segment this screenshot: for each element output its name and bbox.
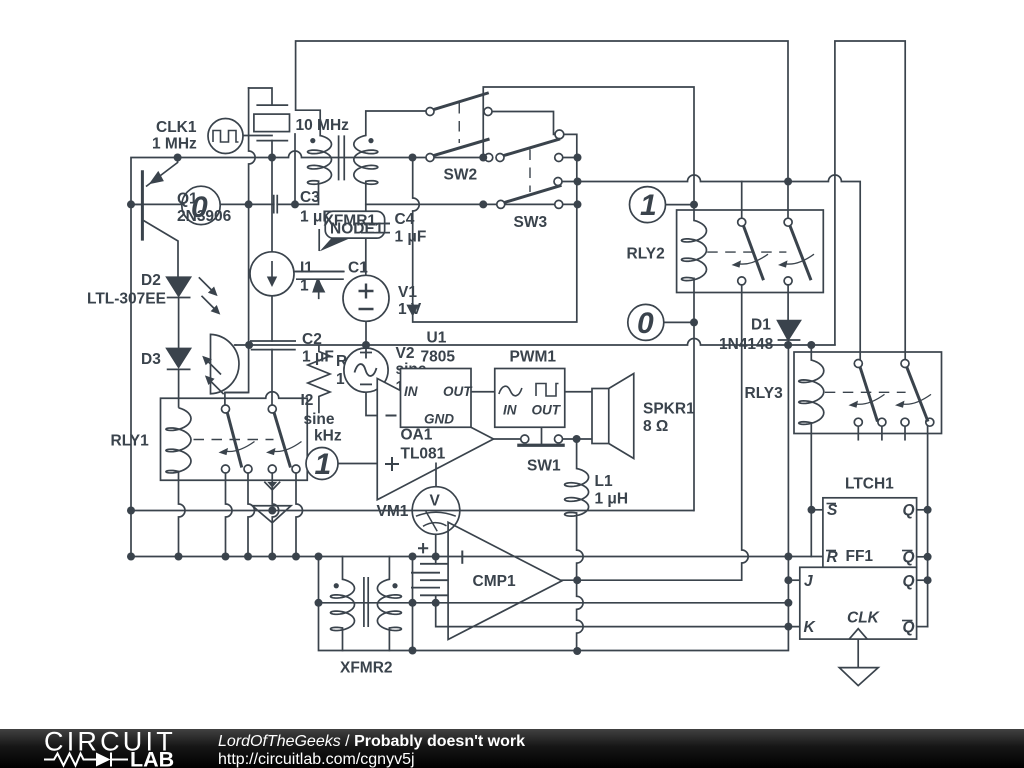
svg-text:LordOfTheGeeks / Probably does: LordOfTheGeeks / Probably doesn't work bbox=[218, 733, 525, 750]
current source I1 bbox=[250, 252, 294, 296]
junction at (577.5,157.5) bbox=[574, 154, 582, 162]
svg-text:LTCH1: LTCH1 bbox=[845, 476, 894, 493]
svg-text:OA1: OA1 bbox=[401, 427, 433, 444]
svg-text:K: K bbox=[804, 619, 817, 636]
capacitor C4 bbox=[361, 224, 390, 233]
FF1 clock triangle bbox=[849, 629, 867, 639]
pin Rbar bbox=[826, 549, 839, 566]
svg-text:1 A: 1 A bbox=[300, 278, 324, 295]
junction at (272.25,556.5) bbox=[268, 553, 276, 561]
wire Q1 base bbox=[131, 203, 141, 205]
junction at (927.6,509.8) bbox=[924, 506, 932, 514]
svg-text:http://circuitlab.com/cgnyv5j: http://circuitlab.com/cgnyv5j bbox=[218, 751, 415, 768]
svg-text:D1: D1 bbox=[751, 317, 771, 334]
wire LTCH1 S stub bbox=[812, 509, 823, 511]
junction at (435.7,602.8) bbox=[432, 599, 440, 607]
wire crystal top lead bbox=[249, 88, 272, 105]
wire LTCH1 Qbar stub bbox=[917, 556, 928, 558]
junction at (318.5,602.8) bbox=[315, 599, 323, 607]
wire RLY3 coil bottom to LTCH1 bbox=[810, 423, 812, 557]
wire C3 right to XFMR1 left winding bbox=[277, 181, 318, 204]
svg-text:sine: sine bbox=[304, 411, 335, 428]
node flag 0 at RLY2 bbox=[628, 304, 664, 340]
junction at (927.6,580.2) bbox=[924, 576, 932, 584]
wire I1 to C1 bbox=[294, 271, 344, 273]
junction at (576.6,439) bbox=[573, 435, 581, 443]
wire bus segment SW2 pole2 throw bbox=[434, 157, 485, 159]
wire FF1 right vertical bbox=[927, 426, 929, 626]
junction at (177.6,157.5) bbox=[174, 154, 182, 162]
junction at (131,510.5) bbox=[127, 507, 135, 515]
wire bus2 y556 to FF1 R bbox=[131, 556, 823, 558]
svg-text:C2: C2 bbox=[302, 331, 322, 348]
relay RLY2 bbox=[677, 210, 824, 293]
wire FF1 Q stub bbox=[917, 579, 928, 581]
wire PWM1 bottom to SW1 bar bbox=[541, 427, 543, 444]
svg-text:1 MHz: 1 MHz bbox=[152, 136, 197, 153]
capacitor C1 bbox=[295, 272, 344, 280]
svg-text:SW3: SW3 bbox=[514, 214, 548, 231]
junction at (318.5,556.5) bbox=[315, 553, 323, 561]
svg-text:1 μH: 1 μH bbox=[595, 491, 629, 508]
junction at (412.5,650.5) bbox=[409, 647, 417, 655]
resistor R1 label bbox=[336, 353, 370, 388]
svg-text:SW1: SW1 bbox=[527, 458, 561, 475]
wire I1 bottom to C2 bbox=[271, 296, 273, 341]
svg-text:V1: V1 bbox=[398, 284, 417, 301]
wire RLY1 stub3 ground bbox=[272, 473, 279, 557]
svg-text:R: R bbox=[827, 549, 839, 566]
junction at (577.2,580.2) bbox=[573, 576, 581, 584]
diode D3 photodiode bbox=[167, 349, 224, 408]
svg-text:1 μF: 1 μF bbox=[302, 349, 334, 366]
pushbutton SW1 bbox=[517, 435, 565, 445]
svg-text:TL081: TL081 bbox=[401, 446, 446, 463]
junction at (248.6,204.4) bbox=[245, 200, 253, 208]
voltage source V2 bbox=[344, 347, 388, 393]
junction at (296,556.5) bbox=[292, 553, 300, 561]
wire RLY3 stub1 bbox=[857, 426, 859, 440]
junction at (577.2,651) bbox=[573, 647, 581, 655]
wire supply line y345 bbox=[236, 339, 835, 346]
CircuitLab logo bbox=[44, 727, 176, 768]
wire RLY2 pole1 bottom to CMP1 output bbox=[562, 285, 748, 580]
wire node1a to RLY2 coil bbox=[666, 204, 695, 206]
inductor L1 bbox=[565, 469, 589, 517]
svg-text:V2: V2 bbox=[396, 345, 415, 362]
junction at (178.5,556.5) bbox=[175, 553, 183, 561]
svg-text:kHz: kHz bbox=[314, 428, 342, 445]
pin Qbar FF1 bbox=[902, 619, 915, 636]
svg-text:C1: C1 bbox=[348, 260, 368, 277]
wire RLY3 stub2 bbox=[881, 426, 883, 440]
junction at (131,204.4) bbox=[127, 200, 135, 208]
junction at (131,556.5) bbox=[127, 553, 135, 561]
wire SW1 to L1 junction to SPKR1 bbox=[563, 438, 593, 440]
wire U1 OUT to PWM1 bbox=[471, 391, 495, 393]
speaker SPKR1 bbox=[592, 374, 634, 459]
svg-text:I1: I1 bbox=[300, 260, 313, 277]
wire XFMR2 secondary top bbox=[388, 557, 390, 580]
crystal XTAL 10MHz bbox=[254, 105, 290, 141]
capacitor C3 bbox=[274, 195, 278, 214]
ground at FF1 bbox=[839, 668, 878, 686]
wire SW2 pole1 throw to SW3 upper throw bbox=[492, 112, 555, 135]
junction at (225.5,556.5) bbox=[222, 553, 230, 561]
svg-text:OUT: OUT bbox=[443, 384, 473, 399]
wire XFMR2 secondary bottom bbox=[388, 628, 390, 651]
svg-text:RLY2: RLY2 bbox=[627, 246, 665, 263]
wire bus1 y510 bbox=[131, 510, 694, 512]
svg-text:Q: Q bbox=[903, 502, 915, 519]
svg-text:I2: I2 bbox=[301, 392, 314, 409]
wire battery bottom to line C to FF1 K bbox=[436, 595, 800, 626]
wire XFMR2 primary top bbox=[342, 557, 344, 580]
wire V1 bottom bbox=[365, 321, 367, 345]
wire L1 top lead bbox=[576, 439, 578, 469]
junction at (694,322.4) bbox=[690, 318, 698, 326]
svg-text:CLK1: CLK1 bbox=[156, 119, 197, 136]
junction at (811.3,345) bbox=[807, 341, 815, 349]
junction at (412.5,556.5) bbox=[409, 553, 417, 561]
svg-text:10 MHz: 10 MHz bbox=[296, 117, 350, 134]
junction at (272,157.5) bbox=[268, 154, 276, 162]
svg-text:C4: C4 bbox=[395, 211, 415, 228]
junction at (788.1,181.5) bbox=[784, 178, 792, 186]
wire bus segment SW3 throw to junction bbox=[563, 157, 578, 159]
junction at (366,345) bbox=[362, 341, 370, 349]
wire V2 bottom to OA1 inverting input bbox=[366, 392, 381, 415]
transformer XFMR1 bbox=[308, 135, 378, 184]
voltmeter VM1 bbox=[412, 463, 460, 535]
svg-text:LTL-307EE: LTL-307EE bbox=[87, 291, 166, 308]
svg-text:0: 0 bbox=[637, 307, 654, 340]
junction at (483.25,204.4) bbox=[479, 200, 487, 208]
junction at (788.4,556.5) bbox=[784, 553, 792, 561]
switch SW2 bbox=[426, 93, 493, 162]
node flag 1 at RLY2 bbox=[630, 187, 666, 223]
resistor R1 bbox=[308, 345, 330, 413]
wire D1 cathode down and line D to XFMR2 bbox=[319, 340, 789, 651]
diode D1 1N4148 bbox=[778, 321, 801, 340]
wire 1-node to OA1 plus input bbox=[338, 463, 377, 465]
wire RLY2 coil bottom vertical bbox=[693, 278, 695, 510]
wire RLY2 pole1 top lead bbox=[741, 182, 743, 219]
svg-text:U1: U1 bbox=[427, 330, 447, 347]
svg-text:SPKR1: SPKR1 bbox=[643, 401, 695, 418]
svg-text:1 μF: 1 μF bbox=[395, 229, 427, 246]
latch LTCH1 box bbox=[823, 498, 917, 568]
capacitor C2 bbox=[250, 341, 296, 350]
wire V2 top stub bbox=[365, 345, 367, 348]
wire RLY1 coil bottom bbox=[179, 472, 186, 557]
wire RLY1 stub4 bbox=[296, 473, 303, 557]
junction at (577.5,181.5) bbox=[574, 178, 582, 186]
wire RLY2 pole2 bottom to D1 bbox=[787, 285, 789, 321]
wire node0 to RLY2 coil line bbox=[664, 321, 694, 323]
junction at (927.6,556.8) bbox=[924, 553, 932, 561]
wire XFMR1 right winding top to SW2 bbox=[366, 111, 426, 135]
wire RLY1 stub2 bbox=[248, 473, 255, 557]
svg-text:RLY1: RLY1 bbox=[111, 433, 150, 450]
svg-text:1: 1 bbox=[640, 189, 657, 222]
svg-text:CLK: CLK bbox=[847, 610, 881, 627]
junction at (295,204.4) bbox=[291, 200, 299, 208]
svg-text:NODE1: NODE1 bbox=[330, 221, 384, 238]
wire top-right bracket bbox=[835, 41, 905, 360]
node flag 0 at Q1 bbox=[182, 186, 220, 224]
svg-text:GND: GND bbox=[424, 412, 454, 427]
photo sensor half disc bbox=[211, 334, 249, 393]
junction at (412.5,602.8) bbox=[409, 599, 417, 607]
wire rail y181.5 SW3 to RLY3 bbox=[562, 175, 860, 359]
wire mid vertical x295 bbox=[294, 134, 296, 204]
battery stack bbox=[411, 564, 448, 596]
junction at (248,556.5) bbox=[244, 553, 252, 561]
pin Sbar bbox=[827, 502, 839, 519]
svg-text:S: S bbox=[827, 502, 838, 519]
transformer XFMR2 bbox=[331, 577, 402, 631]
svg-text:IN: IN bbox=[503, 403, 517, 418]
svg-text:1: 1 bbox=[315, 448, 332, 481]
svg-text:1N4148: 1N4148 bbox=[719, 336, 774, 353]
junction at (272.25,510.5) bbox=[268, 507, 276, 515]
wire FF1 Qbar stub bbox=[917, 626, 928, 628]
diode D2 LED bbox=[167, 277, 221, 348]
node flag 1 at OA1 bbox=[306, 448, 338, 480]
svg-text:Q: Q bbox=[903, 549, 915, 566]
svg-text:OUT: OUT bbox=[532, 403, 562, 418]
junction at (811.5,509.8) bbox=[808, 506, 816, 514]
relay RLY1 bbox=[161, 392, 308, 480]
junction at (788.4,626.6) bbox=[784, 623, 792, 631]
svg-text:IN: IN bbox=[404, 384, 418, 399]
junction at (694,204.6) bbox=[690, 201, 698, 209]
junction at (412.5,157.5) bbox=[409, 154, 417, 162]
comparator CMP1 bbox=[418, 522, 562, 639]
junction at (435.7,556.5) bbox=[432, 553, 440, 561]
wire VM1 bottom to battery bbox=[435, 534, 437, 564]
clock source CLK1 bbox=[208, 119, 243, 154]
wire C2 bottom to RLY1 pole2 bbox=[271, 350, 273, 405]
svg-text:FF1: FF1 bbox=[846, 548, 874, 565]
wire FF1 J stub bbox=[788, 579, 799, 581]
svg-text:XFMR2: XFMR2 bbox=[340, 660, 393, 677]
switch SW3 bbox=[496, 130, 564, 208]
svg-text:8 Ω: 8 Ω bbox=[643, 418, 668, 435]
wire y204 segment XFMR1 to SW3 bbox=[366, 203, 497, 205]
wire RLY3 coil top lead bbox=[810, 345, 812, 360]
wire XFMR2 primary bottom bbox=[342, 628, 344, 651]
wire L1 bottom through CMP lines bbox=[577, 513, 584, 651]
svg-text:SW2: SW2 bbox=[444, 167, 478, 184]
svg-text:1 V: 1 V bbox=[398, 301, 422, 318]
op-amp OA1 bbox=[377, 379, 493, 500]
wire second rail SW2 to RLY2 coil bbox=[483, 87, 694, 220]
wire crystal bottom to I1 top bbox=[271, 141, 273, 252]
junction at (483.25,157.5) bbox=[479, 154, 487, 162]
junction at (788.4,602.8) bbox=[784, 599, 792, 607]
wire XFMR1 right winding bottom to V1 bbox=[365, 181, 367, 275]
wire U1 IN stub bbox=[386, 391, 401, 393]
wire y204 segment SW3 pivot to throw bbox=[505, 203, 555, 205]
wire FF1 CLK to ground bbox=[857, 639, 859, 668]
wire line B CMP1 inverting bbox=[319, 602, 789, 604]
svg-text:D3: D3 bbox=[141, 351, 161, 368]
wire top rail from crystal corner to RLY2 pole2 bbox=[296, 41, 788, 218]
svg-text:7805: 7805 bbox=[421, 349, 456, 366]
svg-text:PWM1: PWM1 bbox=[510, 349, 557, 366]
junction at (577.5,204.4) bbox=[574, 200, 582, 208]
regulator U1 7805 box bbox=[401, 369, 472, 428]
junction at (788.1,345) bbox=[784, 341, 792, 349]
wire y204 segment SW3 throw to junction bbox=[563, 203, 578, 205]
svg-text:Q: Q bbox=[903, 573, 915, 590]
wire SW3 upper throw to C4 loop bbox=[413, 134, 577, 322]
svg-text:LAB: LAB bbox=[130, 748, 174, 768]
V2 labels bbox=[396, 345, 437, 396]
svg-text:L1: L1 bbox=[595, 473, 613, 490]
wire PWM1 OUT to SPKR1 bbox=[565, 391, 592, 393]
relay RLY3 bbox=[794, 352, 942, 434]
wire CLK1 output bbox=[243, 135, 272, 137]
wire LTCH1 Q stub bbox=[917, 509, 928, 511]
ground flag at RLY1 bbox=[252, 482, 291, 523]
junction at (249.1,345) bbox=[245, 341, 253, 349]
wire RLY3 stub3 bbox=[904, 426, 906, 440]
svg-text:RLY3: RLY3 bbox=[745, 385, 784, 402]
wire base line y204 left segment bbox=[131, 203, 274, 205]
flipflop FF1 box bbox=[800, 567, 917, 639]
V1 annotation arrow bbox=[408, 303, 418, 315]
I1 current arrow bbox=[313, 281, 324, 299]
svg-text:VM1: VM1 bbox=[377, 503, 409, 520]
wire U1 GND stub bbox=[435, 427, 437, 432]
wire main bus y157 with left leg bbox=[131, 151, 426, 557]
label XFMR1 NODE1 flag bbox=[319, 211, 390, 251]
transistor Q1 2N3906 bbox=[142, 158, 178, 278]
pin Qbar LTCH1 bbox=[902, 549, 915, 566]
svg-text:V: V bbox=[430, 493, 441, 510]
wire left leg x248 with photodiode link bbox=[225, 88, 255, 405]
svg-text:Q: Q bbox=[903, 619, 915, 636]
svg-text:CMP1: CMP1 bbox=[473, 573, 516, 590]
junction at (788.4,580.2) bbox=[784, 576, 792, 584]
svg-text:J: J bbox=[804, 573, 813, 590]
wire XFMR2 right vertical bbox=[412, 557, 414, 651]
pwm block PWM1 bbox=[495, 369, 565, 428]
wire OA1 output to SW1 bbox=[494, 438, 521, 440]
svg-text:0: 0 bbox=[191, 191, 208, 224]
svg-text:D2: D2 bbox=[141, 272, 161, 289]
wire RLY1 stub1 bbox=[226, 473, 233, 557]
voltage source V1 bbox=[343, 275, 389, 321]
svg-text:C3: C3 bbox=[300, 189, 320, 206]
